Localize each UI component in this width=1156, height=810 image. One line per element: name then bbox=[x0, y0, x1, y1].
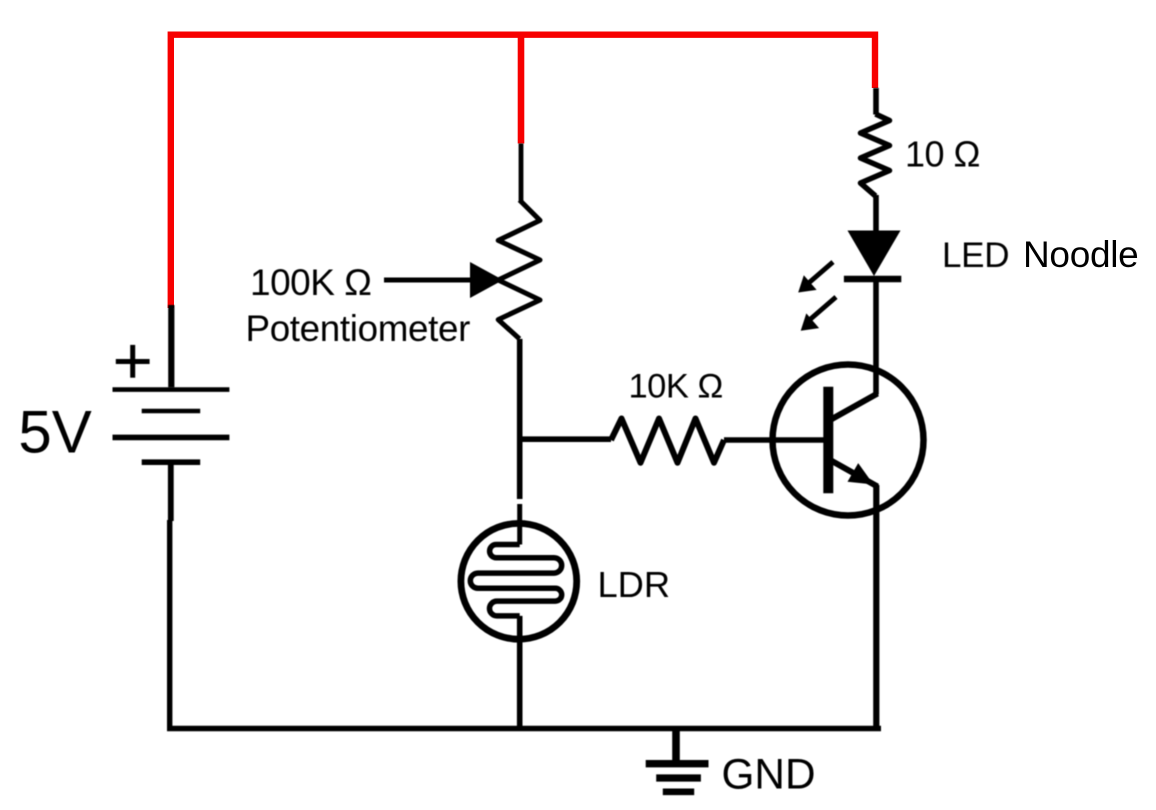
svg-text:LED: LED bbox=[942, 236, 1009, 275]
svg-text:Noodle: Noodle bbox=[1023, 234, 1138, 275]
svg-text:Potentiometer: Potentiometer bbox=[246, 308, 471, 349]
svg-text:GND: GND bbox=[722, 751, 816, 798]
svg-text:5V: 5V bbox=[18, 398, 91, 465]
svg-text:10K Ω: 10K Ω bbox=[629, 367, 723, 405]
svg-text:10 Ω: 10 Ω bbox=[905, 134, 980, 175]
svg-text:100K Ω: 100K Ω bbox=[250, 262, 371, 303]
svg-text:LDR: LDR bbox=[598, 564, 671, 605]
